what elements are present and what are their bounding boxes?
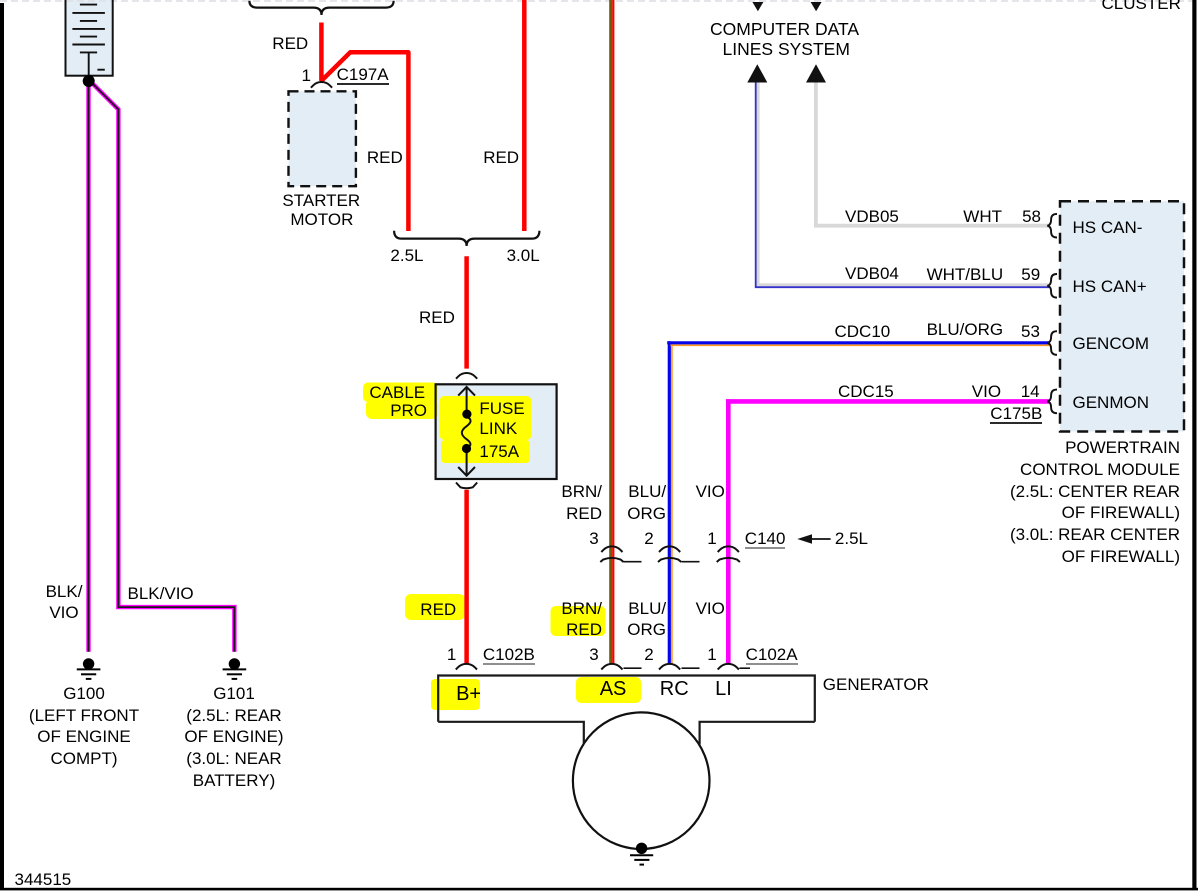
wire BLK/VIO right (battery to G101) bbox=[89, 80, 234, 652]
generator pin LI bbox=[715, 679, 732, 699]
brace top (above C197A) bbox=[249, 1, 393, 15]
page top dashed border bbox=[0, 0, 1198, 2]
wire WHT/BLU (VDB04) bbox=[758, 81, 1049, 285]
diagram number 344515 bbox=[15, 871, 72, 888]
annotation PRO (highlighted) bbox=[390, 402, 427, 419]
fuse link box fill bbox=[436, 384, 557, 479]
pin 3 of C102A bbox=[589, 646, 598, 663]
pin 53 of PCM bbox=[1021, 323, 1040, 340]
pin 1 of C102B bbox=[447, 646, 456, 663]
wire label WHT/BLU bbox=[927, 266, 1004, 283]
connector hat C197A bbox=[311, 82, 332, 88]
wire label BLU/ORG bbox=[927, 321, 1004, 338]
C140 2.5L arrow bbox=[797, 534, 812, 543]
battery plates bbox=[72, 5, 105, 76]
connector C175B label bbox=[990, 405, 1042, 424]
highlight PRO bbox=[366, 399, 438, 419]
starter motor label line 1 bbox=[282, 192, 360, 209]
connector C140 label bbox=[745, 530, 786, 549]
pin 1 of C197A bbox=[302, 67, 311, 84]
net label LINES SYSTEM bbox=[723, 41, 850, 59]
ground G100 name and location bbox=[4, 683, 164, 770]
page right border bar bbox=[1192, 0, 1196, 890]
wire label ORG of BLU/ORG (lower) bbox=[627, 621, 666, 638]
PCM pin name GENMON bbox=[1073, 394, 1150, 411]
wire label RED (to fuse link) bbox=[419, 309, 455, 326]
starter motor box border bbox=[289, 91, 356, 186]
circuit number VDB05 bbox=[845, 208, 899, 225]
wire label VIO (upper) bbox=[696, 483, 725, 500]
connector smile below fuse box bbox=[456, 483, 477, 489]
wire label RED (3.0L branch) bbox=[483, 149, 519, 166]
wire RED fuse to C102B bbox=[464, 490, 469, 664]
PCM pin name HS CAN- bbox=[1073, 219, 1143, 236]
PCM pin hooks bbox=[1047, 214, 1057, 413]
wire label RED (2.5L branch) bbox=[367, 149, 403, 166]
wire BLU/ORG horizontal GENCOM bbox=[667, 341, 1049, 344]
highlight CABLE bbox=[363, 383, 438, 403]
wire label VIO (lower) bbox=[696, 600, 725, 617]
pin 14 of PCM bbox=[1021, 383, 1040, 400]
starter motor box fill bbox=[289, 91, 356, 186]
highlight RED bbox=[405, 594, 465, 620]
connector C102B label bbox=[483, 646, 535, 665]
circuit number VDB04 bbox=[845, 265, 899, 282]
C140 connector hats bbox=[600, 546, 740, 562]
generator box bbox=[438, 676, 815, 745]
wire RED to 2.5L brace bbox=[321, 52, 409, 231]
PCM U1 name and location text bbox=[980, 437, 1180, 567]
annotation CABLE (highlighted) bbox=[369, 384, 425, 401]
fuse link value 175A bbox=[479, 443, 519, 460]
circuit number CDC15 bbox=[838, 383, 894, 400]
connector hat above fuse box bbox=[456, 373, 477, 379]
pin 2 of C140 bbox=[644, 530, 653, 547]
wire WHT (VDB05) bbox=[816, 81, 1049, 226]
connector C102A label bbox=[746, 646, 798, 665]
PCM box fill bbox=[1060, 201, 1184, 431]
wire label RED of BRN/RED (upper) bbox=[566, 505, 602, 522]
wire RED battery feed to C197A junction bbox=[319, 23, 324, 81]
highlight BRN/RED bbox=[551, 606, 606, 636]
wire label BRN/ (lower, highlighted) bbox=[561, 600, 602, 617]
wire VIO horizontal GENMON bbox=[726, 399, 1049, 404]
ground G101 name and location bbox=[154, 683, 314, 791]
generator G1 name label bbox=[823, 676, 929, 693]
circuit number CDC10 bbox=[835, 323, 891, 340]
pin 59 of PCM bbox=[1021, 266, 1040, 283]
pin 1 of C140 bbox=[707, 530, 716, 547]
fuse link F1 label line 1 bbox=[479, 400, 524, 417]
arrows computer data lines bbox=[747, 64, 767, 82]
wire label WHT bbox=[963, 208, 1002, 225]
wire label BRN/ (upper) bbox=[561, 483, 602, 500]
wire VIO vertical bbox=[726, 399, 731, 663]
option label 2.5L bbox=[390, 247, 423, 264]
highlight AS bbox=[576, 677, 641, 703]
wire BRN/RED vertical bbox=[609, 0, 612, 663]
ground G101 bbox=[223, 658, 247, 679]
fuse link box border bbox=[436, 384, 557, 479]
C102A connector hats bbox=[601, 664, 739, 670]
C102B connector hat bbox=[456, 664, 477, 670]
wire RED 3.0L to brace bbox=[522, 0, 527, 231]
ground G100 bbox=[77, 658, 101, 679]
page bottom border line bbox=[0, 888, 1198, 891]
pin 1 of C102A bbox=[707, 646, 716, 663]
page left border bar bbox=[0, 3, 4, 890]
wire label RED of BRN/RED (lower, highlighted) bbox=[566, 621, 602, 638]
net label COMPUTER DATA bbox=[710, 21, 859, 39]
highlight B+ bbox=[431, 679, 480, 710]
connector C197A label bbox=[337, 66, 389, 85]
generator circle bbox=[573, 712, 710, 849]
pin 58 of PCM bbox=[1022, 208, 1041, 225]
wire RED brace to fuse link bbox=[464, 256, 469, 368]
node CLUSTER (clipped at top) bbox=[1102, 0, 1181, 12]
wire label ORG of BLU/ORG (upper) bbox=[627, 505, 666, 522]
battery B border bbox=[66, 0, 113, 76]
wire label BLU/ (lower) bbox=[628, 600, 666, 617]
highlight 175A bbox=[441, 440, 530, 463]
starter motor label line 2 bbox=[290, 211, 353, 228]
wire BLK/VIO left (battery to G100) bbox=[86, 81, 90, 652]
PCM pin name GENCOM bbox=[1073, 335, 1150, 352]
fuse link symbol bbox=[458, 387, 475, 476]
generator pin AS (highlighted) bbox=[600, 679, 627, 699]
wire label BLK/VIO (right) bbox=[128, 585, 194, 602]
battery junction node bbox=[83, 75, 95, 87]
battery B fill bbox=[66, 0, 113, 76]
PCM pin name HS CAN+ bbox=[1073, 278, 1147, 295]
wire label BLU/ (upper) bbox=[628, 483, 666, 500]
pin 2 of C102A bbox=[644, 646, 653, 663]
wire label RED (battery feed) bbox=[272, 35, 308, 52]
generator ground bbox=[630, 843, 653, 865]
wire label BLK/VIO (left) bbox=[24, 582, 104, 624]
wire label RED (highlighted, to B+) bbox=[420, 601, 456, 618]
PCM box border bbox=[1060, 201, 1184, 431]
generator pin RC bbox=[660, 679, 689, 699]
generator pin B+ (highlighted) bbox=[456, 684, 481, 704]
wire label VIO bbox=[972, 383, 1001, 400]
option label 3.0L bbox=[507, 247, 540, 264]
brace 2.5L/3.0L bbox=[394, 231, 539, 246]
pin 3 of C140 bbox=[589, 530, 598, 547]
fuse link F1 label line 2 bbox=[479, 420, 517, 437]
wire BLU/ORG vertical bbox=[668, 341, 671, 663]
note 2.5L for C140 bbox=[835, 530, 868, 547]
highlight FUSE LINK bbox=[440, 396, 532, 440]
